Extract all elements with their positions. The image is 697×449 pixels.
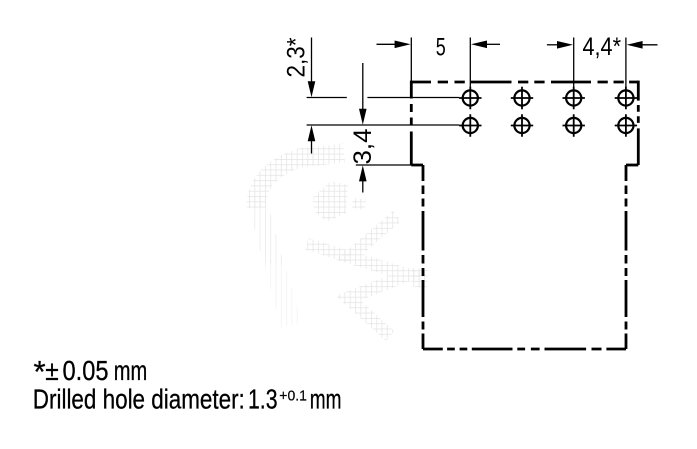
watermark tail vertical hatch lower	[263, 260, 302, 328]
note line 2	[33, 383, 342, 414]
hole r2c4	[615, 114, 637, 136]
svg-text:0.05: 0.05	[63, 355, 109, 386]
dimension 2,3*: upper line + down arrow	[308, 38, 316, 98]
connector outline top edge (phantom line)	[411, 81, 638, 84]
extension line x=625.9 (hole col 4)	[625, 38, 627, 89]
watermark W zigzag	[348, 216, 408, 336]
dimension 3,4: upper line + down arrow	[359, 63, 367, 125]
extension line x=411.3 (left edge)	[410, 38, 412, 83]
extension line x=470.3 (hole col 1)	[469, 38, 471, 89]
connector outline right step	[626, 164, 638, 167]
connector outline bottom edge	[423, 348, 626, 351]
svg-text:mm: mm	[114, 355, 148, 386]
dimension 2,3*: lower up arrow	[308, 125, 316, 153]
connector outline right upper edge	[637, 81, 640, 165]
svg-text:3,4: 3,4	[349, 128, 377, 164]
connector outline left lower edge	[422, 165, 425, 349]
hole r1c2	[511, 87, 533, 109]
hole r1c1	[459, 87, 481, 109]
dimension 5: left arrow	[377, 41, 411, 49]
row line 1 (left of gap)	[307, 97, 347, 99]
watermark right patch	[411, 268, 428, 289]
hole r2c1	[459, 114, 481, 136]
dimension 5: right arrow	[471, 41, 500, 49]
svg-text:+0.1: +0.1	[279, 387, 307, 404]
watermark arc band	[256, 153, 344, 208]
hole r1c4	[615, 87, 637, 109]
connector outline left step	[411, 164, 423, 167]
svg-text:5: 5	[436, 33, 446, 61]
svg-text:1.3: 1.3	[248, 383, 278, 414]
watermark tail vertical hatch upper	[247, 196, 285, 265]
watermark flag patch	[313, 181, 348, 222]
svg-text:2,3*: 2,3*	[282, 37, 310, 77]
dimension 4,4*: right arrow	[627, 41, 658, 49]
row line 1 (right of gap)	[367, 97, 459, 99]
hole r2c3	[563, 114, 585, 136]
row line 2	[307, 124, 460, 126]
svg-text:mm: mm	[310, 383, 342, 414]
step extension line	[356, 164, 422, 166]
note line 1	[34, 354, 148, 389]
svg-text:±: ±	[45, 355, 59, 386]
watermark small blob	[352, 198, 366, 210]
hole r2c2	[511, 114, 533, 136]
extension line x=573.7 (hole col 3)	[573, 38, 575, 89]
connector outline left upper edge	[410, 81, 413, 165]
hole r1c3	[563, 87, 585, 109]
dimension 3,4: lower up arrow	[359, 165, 367, 192]
dimension 4,4*: left arrow	[547, 41, 573, 49]
svg-text:4,4*: 4,4*	[583, 33, 622, 61]
watermark arm band	[307, 244, 350, 257]
svg-text:Drilled hole diameter:: Drilled hole diameter:	[33, 383, 245, 414]
connector outline right lower edge	[625, 165, 628, 349]
